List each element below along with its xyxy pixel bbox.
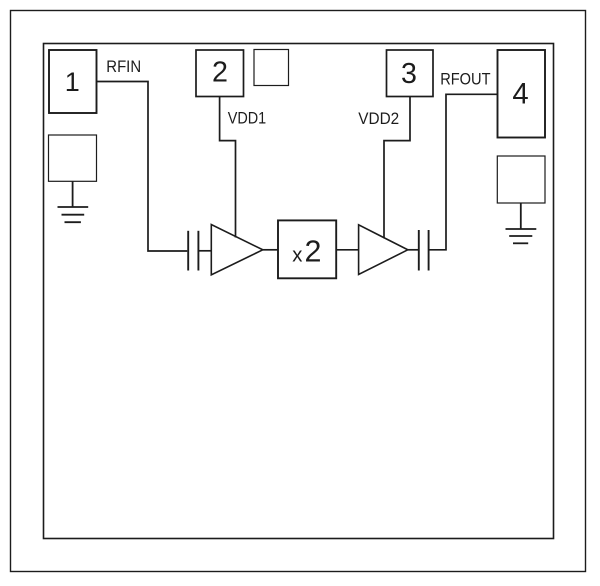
wire A1 to x2 multiplier (263, 249, 278, 251)
capacitor C1 (DC block) (188, 231, 198, 271)
wire RFOUT from C2 to pad 4 (429, 94, 498, 250)
pad 2 (pin 2 bond pad) (196, 50, 244, 97)
capacitor C2 (DC block) (419, 230, 429, 271)
pad 4 (pin 4 bond pad) (498, 50, 546, 138)
ground symbol left (58, 181, 89, 222)
pad 1 (pin 1 bond pad) (49, 50, 97, 113)
multiplier U1 x2 box (278, 220, 336, 278)
svg-text:3: 3 (401, 58, 417, 90)
svg-text:RFIN: RFIN (106, 57, 141, 76)
svg-text:2: 2 (212, 56, 228, 88)
svg-text:VDD1: VDD1 (228, 109, 267, 128)
wire A2 to capacitor C2 (408, 249, 419, 251)
pad 3 (pin 3 bond pad) (387, 50, 434, 97)
wire RFIN from pad 1 to capacitor C1 (97, 82, 188, 252)
op-amp A1 (input amplifier) (211, 225, 262, 275)
wire x2 to amplifier A2 (336, 249, 358, 251)
ground pad right (497, 156, 545, 203)
wire C1 to amplifier A1 (198, 250, 211, 252)
unlabeled pad (no-connect) (254, 50, 289, 86)
svg-text:4: 4 (512, 77, 528, 110)
ground symbol right (506, 203, 537, 243)
svg-text:RFOUT: RFOUT (440, 69, 490, 88)
svg-text:1: 1 (65, 67, 80, 97)
wire VDD2 from pad 3 to A2 (384, 97, 410, 239)
svg-text:VDD2: VDD2 (358, 109, 399, 128)
chip outline (44, 44, 554, 539)
wire VDD1 from pad 2 to A1 (220, 97, 236, 238)
op-amp A2 (output amplifier) (359, 225, 408, 275)
ground pad left (49, 135, 97, 181)
